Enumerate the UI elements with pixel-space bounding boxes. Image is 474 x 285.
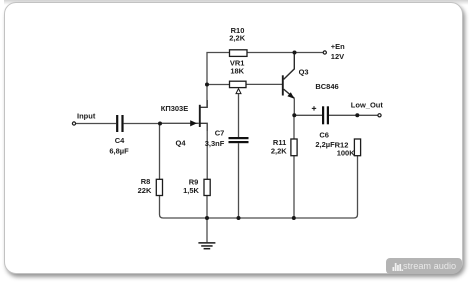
wire Q3 emitter [284,89,295,98]
resistor R8 [156,179,162,195]
svg-text:R9: R9 [189,177,199,186]
value 18K [230,67,244,76]
svg-text:BC846: BC846 [315,82,338,91]
wire R10 to +En terminal [247,52,323,54]
wire Q3 collector [284,53,295,80]
label R12 [335,141,349,150]
label 12V [331,52,344,61]
junction ground node [205,216,209,220]
junction R11/ground rail [292,216,296,220]
wire ground rail middle [207,217,294,219]
wire emitter to node [293,98,295,115]
value 1,5K [183,186,199,195]
junction node B (VR1 tap on drain line) [205,83,209,87]
wire R11 bottom to ground rail [293,156,295,218]
label KP303E [161,104,188,113]
svg-text:3,3nF: 3,3nF [205,139,225,148]
potentiometer VR1 wiper arrow [236,89,241,94]
svg-text:C7: C7 [215,129,225,138]
wire Q4 drain lead [200,100,207,107]
wire VR1 to Q3 base [246,83,282,85]
svg-text:6,8µF: 6,8µF [109,146,129,155]
wire node B to VR1 [207,84,230,86]
label C4 [115,136,125,145]
ground symbol [198,243,215,249]
wire input to C4 [76,123,117,125]
svg-text:Input: Input [77,111,96,120]
wire emitter node down to R11 [293,115,295,139]
svg-text:C4: C4 [115,136,125,145]
transistor Q3 base bar [282,75,284,95]
svg-text:100K: 100K [337,148,356,157]
svg-text:Q3: Q3 [299,68,309,77]
wire Q4 source to R9 [206,131,208,179]
C6 plus polarity mark [312,106,316,110]
value 2,2uF [315,140,335,149]
wire ground stem [206,218,208,242]
label R11 [273,138,286,147]
wire C6 to Low_Out terminal [329,114,378,116]
svg-text:2,2K: 2,2K [229,33,245,42]
label C7 [215,129,225,138]
wire emitter node to C6 [294,114,322,116]
svg-text:18K: 18K [230,67,244,76]
junction node A (input/R8/gate) [158,122,162,126]
terminal Low_Out [378,114,381,117]
value 3,3nF [205,139,225,148]
value 6,8uF [109,146,129,155]
wire R9 bottom to ground node [206,196,208,219]
junction Low_Out node [355,113,359,117]
terminal +En [323,51,326,54]
value 100K [337,148,356,157]
label Input [77,111,96,120]
label Low_Out [351,101,384,110]
transistor Q4 channel bar [199,105,201,127]
label R9 [189,177,199,186]
wire top rail corner to R10 [207,53,230,108]
wire node A down to R8 [159,124,161,180]
label C6 [319,130,329,139]
transistor Q4 gate arrow [190,120,197,126]
label R10 [231,26,245,35]
capacitor C6 [322,106,329,124]
value 2,2K R11 [271,147,287,156]
resistor R9 [204,179,210,195]
terminal Input [72,122,75,125]
wire C7 to ground rail [238,143,240,218]
label +En [331,42,345,51]
wire R8 bottom to ground rail [160,196,208,219]
wire C4 to node A [124,123,160,125]
svg-text:КП303Е: КП303Е [161,104,188,113]
svg-text:Q4: Q4 [175,138,186,147]
label Q3 [299,68,309,77]
label Q4 [175,138,186,147]
capacitor C7 [229,137,249,143]
potentiometer VR1 body [230,81,247,87]
label BC846 [315,82,338,91]
resistor R10 [230,50,248,57]
transistor Q3 emitter arrow [287,92,294,99]
capacitor C4 [116,115,124,132]
wire Q4 source lead [200,123,207,131]
svg-text:R11: R11 [273,138,286,147]
svg-text:2,2µF: 2,2µF [315,140,335,149]
resistor R12 [354,139,360,156]
wire ground rail right to R12 [294,156,358,219]
svg-text:R8: R8 [141,177,151,186]
svg-text:Low_Out: Low_Out [351,101,384,110]
svg-text:C6: C6 [319,130,329,139]
svg-text:2,2K: 2,2K [271,147,287,156]
wire node A to Q4 gate [160,122,199,124]
junction C7/ground rail [237,216,241,220]
svg-text:+En: +En [331,42,345,51]
wire VR1 wiper to C7 [238,94,240,138]
value 22K [138,186,152,195]
svg-text:12V: 12V [331,52,344,61]
value 2,2K R10 [229,33,245,42]
svg-text:22K: 22K [138,186,152,195]
resistor R11 [291,139,297,156]
svg-text:1,5K: 1,5K [183,186,199,195]
junction emitter node [292,113,296,117]
label R8 [141,177,151,186]
junction collector/rail [293,51,297,55]
label VR1 [230,59,245,68]
